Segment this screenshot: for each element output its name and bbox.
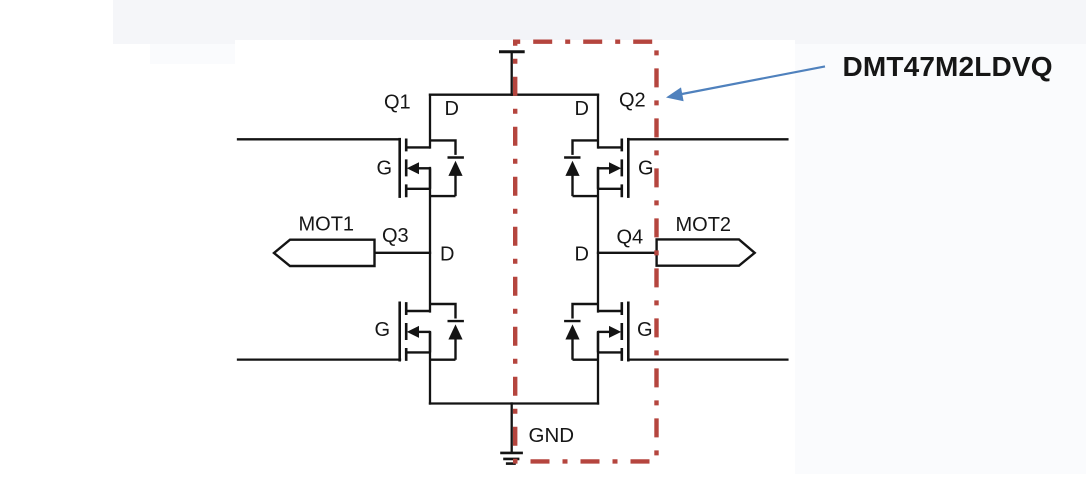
- svg-text:G: G: [637, 319, 653, 341]
- node MOT2 connector: [657, 239, 755, 265]
- wire Q2 drain vertical: [597, 95, 599, 148]
- Q3 channel arrow: [407, 326, 419, 338]
- Q4 body diode: [565, 324, 579, 339]
- wire top rail Q1.D to Q2.D: [430, 94, 598, 96]
- wire Q2 source to Q4 drain (node MOT2 column): [597, 168, 599, 312]
- Q1 body diode: [448, 161, 462, 176]
- Q3 body diode: [448, 324, 462, 339]
- transistor Q4 (low side right, mirrored): [564, 302, 628, 362]
- wire Q4 source vertical: [597, 332, 599, 404]
- highlight box around Q2/Q4 (DMT47M2LDVQ): [515, 42, 656, 462]
- wire Q2 gate lead: [629, 138, 788, 140]
- wire Q4 gate lead: [629, 358, 788, 360]
- transistor Q1 (high side left, N-MOSFET with body diode): [400, 138, 464, 198]
- node MOT1 connector: [274, 240, 375, 266]
- Q1 channel arrow (pointing to gate): [407, 162, 419, 174]
- svg-text:MOT2: MOT2: [676, 214, 732, 236]
- wire Q3 gate lead: [238, 358, 400, 360]
- wire MOT1 stub: [375, 252, 431, 254]
- Q2 body diode: [565, 161, 579, 176]
- svg-text:GND: GND: [529, 424, 575, 447]
- svg-text:D: D: [445, 98, 459, 120]
- wire Q3 source vertical: [429, 332, 431, 404]
- transistor Q2 (high side right, mirrored): [564, 138, 628, 198]
- svg-text:G: G: [638, 158, 654, 180]
- power supply symbol: [501, 52, 524, 95]
- svg-text:G: G: [377, 158, 393, 180]
- svg-text:DMT47M2LDVQ: DMT47M2LDVQ: [843, 51, 1053, 82]
- svg-text:MOT1: MOT1: [299, 213, 355, 235]
- svg-text:D: D: [440, 244, 454, 266]
- svg-text:D: D: [575, 98, 589, 120]
- wire MOT2 stub: [598, 252, 657, 254]
- wire Q1 gate lead: [238, 138, 400, 140]
- svg-text:Q3: Q3: [382, 225, 409, 247]
- ground: [500, 453, 523, 464]
- annotation arrow to highlight box: [666, 66, 825, 101]
- wire Q1 source to Q3 drain (node MOT1 column): [429, 168, 431, 312]
- wire bottom rail Q3.S to Q4.S: [430, 402, 598, 404]
- transistor Q3 (low side left): [400, 302, 464, 362]
- Q4 channel arrow: [609, 326, 621, 338]
- svg-text:Q2: Q2: [619, 89, 646, 111]
- svg-text:Q4: Q4: [617, 227, 644, 249]
- svg-text:Q1: Q1: [384, 91, 411, 113]
- svg-text:D: D: [575, 244, 589, 266]
- svg-text:G: G: [375, 319, 391, 341]
- Q2 channel arrow: [609, 162, 621, 174]
- wire Q1 drain vertical: [429, 95, 431, 148]
- wire ground stem: [511, 404, 513, 452]
